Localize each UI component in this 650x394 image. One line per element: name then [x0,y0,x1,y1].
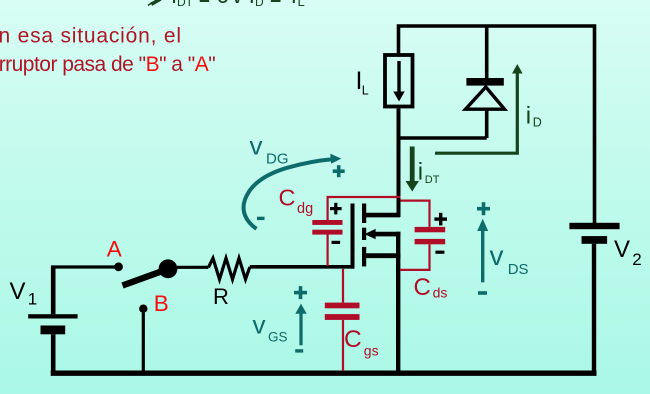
svg-text:rruptor pasa de "B" a "A": rruptor pasa de "B" a "A" [0,53,215,76]
svg-text:i: i [418,158,423,185]
svg-text:v: v [253,310,266,340]
svg-text:i: i [249,0,254,8]
svg-text:v: v [232,0,244,8]
svg-text:dg: dg [297,201,313,217]
svg-text:i: i [526,102,531,129]
svg-text:DS: DS [508,261,529,278]
svg-text:0: 0 [217,0,230,8]
svg-text:V: V [10,278,26,305]
svg-text:ds: ds [433,285,448,301]
svg-text:i: i [172,0,177,8]
svg-text:B: B [154,291,169,316]
svg-text:GS: GS [268,330,288,345]
svg-text:v: v [250,130,263,160]
svg-text:gs: gs [364,343,379,359]
svg-text:DG: DG [266,151,289,168]
svg-text:C: C [344,326,362,353]
svg-text:C: C [414,274,431,301]
svg-text:L: L [298,0,305,9]
svg-text:n esa situación, el: n esa situación, el [0,25,182,48]
svg-text:v: v [490,240,504,271]
svg-text:D: D [255,0,264,9]
svg-text:DT: DT [425,174,440,186]
svg-text:DT: DT [177,0,194,9]
svg-text:D: D [533,116,542,130]
svg-text:A: A [107,237,122,262]
svg-text:C: C [279,185,296,211]
svg-text:L: L [362,84,369,98]
svg-text:R: R [213,284,229,309]
svg-text:V: V [614,236,630,263]
svg-text:2: 2 [632,250,641,269]
svg-text:1: 1 [28,290,37,309]
svg-text:i: i [291,0,296,8]
